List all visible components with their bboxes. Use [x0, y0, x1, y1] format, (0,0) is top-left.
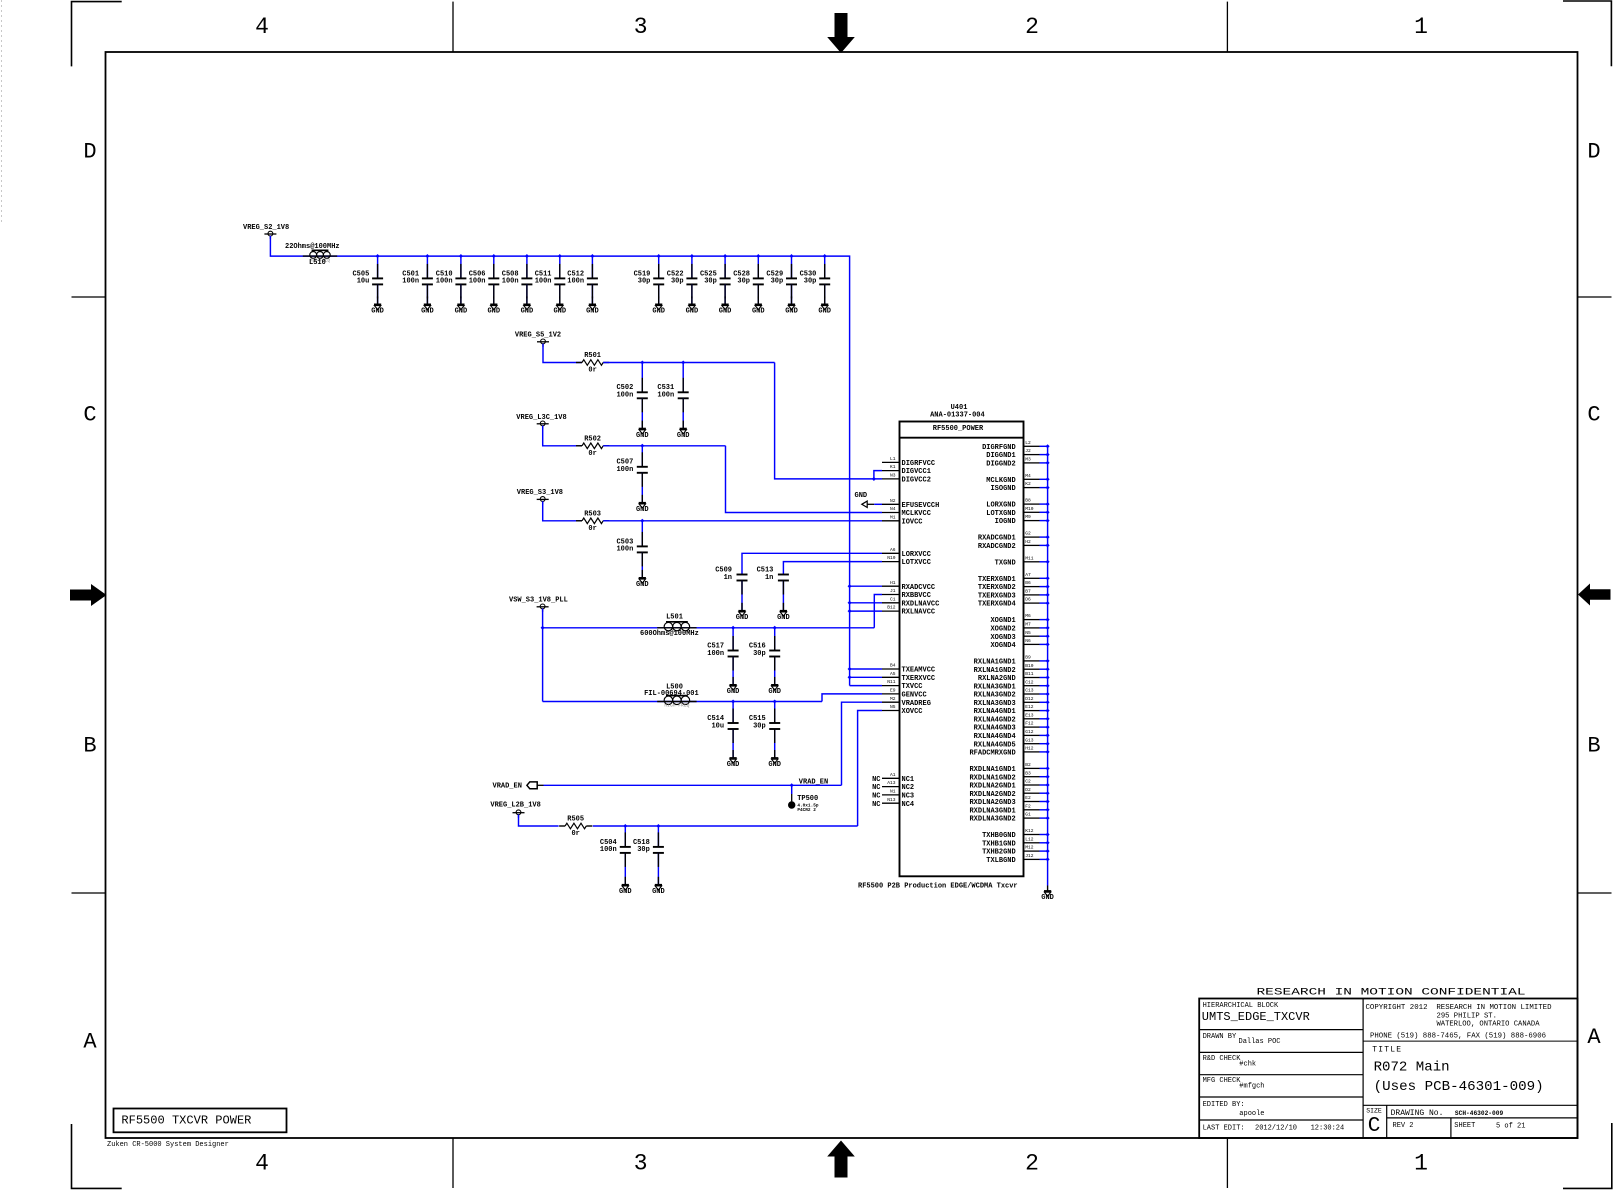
- svg-text:RXLNA1GND1: RXLNA1GND1: [974, 659, 1016, 667]
- svg-text:C1: C1: [890, 596, 896, 602]
- ground: [371, 304, 384, 315]
- svg-text:K2: K2: [1025, 481, 1031, 487]
- ground: [768, 685, 781, 696]
- svg-text:XOVCC: XOVCC: [902, 708, 923, 716]
- svg-text:D: D: [83, 140, 96, 165]
- svg-text:R&D CHECK: R&D CHECK: [1203, 1055, 1242, 1063]
- ground: [421, 304, 434, 315]
- ground: [487, 304, 500, 315]
- junction C522 tap: [690, 254, 694, 258]
- wire net RXADCVCC tap: [848, 584, 882, 588]
- svg-text:22Ohms@100MHz: 22Ohms@100MHz: [285, 243, 340, 251]
- svg-text:RXLNA1GND2: RXLNA1GND2: [974, 667, 1016, 675]
- ground: [652, 304, 665, 315]
- svg-text:R502: R502: [584, 435, 601, 443]
- wire net VRAD_EN: [544, 702, 883, 785]
- svg-text:XOGND4: XOGND4: [990, 642, 1015, 650]
- wire net XOVCC (R505 output): [593, 711, 882, 827]
- capacitor C512: [567, 256, 598, 304]
- svg-text:NC3: NC3: [902, 793, 915, 801]
- svg-text:ANA-01337-004: ANA-01337-004: [930, 412, 985, 420]
- svg-text:B6: B6: [1025, 580, 1031, 586]
- capacitor C513: [757, 566, 789, 610]
- svg-text:B: B: [1587, 734, 1600, 759]
- svg-text:A13: A13: [887, 780, 896, 786]
- pin K2 ISOGND: [990, 481, 1049, 493]
- svg-text:0r: 0r: [588, 450, 596, 458]
- svg-text:30p: 30p: [671, 278, 684, 286]
- ground: [521, 304, 534, 315]
- svg-text:D6: D6: [1025, 597, 1031, 603]
- connector VRAD_EN: [493, 782, 544, 791]
- svg-text:C12: C12: [1025, 679, 1034, 685]
- svg-text:1: 1: [1414, 14, 1428, 40]
- svg-text:RXLNA2GND: RXLNA2GND: [978, 675, 1016, 683]
- IC U401 description text: [858, 883, 1018, 891]
- svg-text:N2: N2: [890, 498, 896, 504]
- svg-text:N3: N3: [890, 473, 896, 479]
- svg-text:VSW_S3_1V8_PLL: VSW_S3_1V8_PLL: [509, 597, 568, 605]
- svg-text:PHONE (519) 888-7465, FAX (519: PHONE (519) 888-7465, FAX (519) 888-6906: [1370, 1033, 1546, 1041]
- svg-text:K1: K1: [890, 464, 896, 470]
- capacitor C515: [749, 702, 780, 759]
- svg-text:TXERXGND2: TXERXGND2: [978, 584, 1016, 592]
- svg-text:E12: E12: [1025, 704, 1034, 710]
- svg-text:XOGND3: XOGND3: [990, 634, 1015, 642]
- svg-text:L510: L510: [309, 259, 326, 267]
- junction C529 tap: [789, 254, 793, 258]
- svg-text:GENVCC: GENVCC: [902, 692, 927, 700]
- junction C511 tap: [558, 254, 562, 258]
- svg-text:SCH-46302-009: SCH-46302-009: [1455, 1110, 1504, 1117]
- capacitor C511: [535, 256, 566, 304]
- svg-text:GND: GND: [785, 308, 798, 316]
- svg-text:RFADCMRXGND: RFADCMRXGND: [969, 750, 1015, 758]
- pin N6 XOGND4: [990, 638, 1049, 650]
- pin M9 IOGND: [995, 514, 1050, 526]
- pin B2 RXDLNA1GND1: [969, 762, 1049, 774]
- ground: [677, 429, 690, 440]
- svg-text:1n: 1n: [724, 574, 732, 582]
- svg-text:LOTXVCC: LOTXVCC: [902, 559, 931, 567]
- svg-text:0r: 0r: [571, 830, 579, 838]
- svg-text:GND: GND: [855, 492, 868, 500]
- pin M7 XOGND2: [990, 622, 1049, 634]
- svg-text:TXLBGND: TXLBGND: [986, 857, 1015, 865]
- svg-text:Zuken CR-5000 System Designer: Zuken CR-5000 System Designer: [107, 1141, 229, 1149]
- svg-text:COPYRIGHT 2012 RESEARCH IN MO: COPYRIGHT 2012 RESEARCH IN MOTION LIMITE…: [1366, 1004, 1552, 1012]
- svg-text:P4CR2 2: P4CR2 2: [797, 808, 816, 813]
- pin N11 TXVCC: [882, 679, 923, 691]
- ground EFUSEVCCH: [855, 492, 883, 507]
- svg-text:30p: 30p: [638, 278, 651, 286]
- ground: [686, 304, 699, 315]
- svg-text:GND: GND: [636, 581, 649, 589]
- svg-text:RXLNA3GND2: RXLNA3GND2: [974, 692, 1016, 700]
- svg-text:D2: D2: [1025, 787, 1031, 793]
- svg-text:MCLKGND: MCLKGND: [986, 477, 1015, 485]
- junction C507 tap: [640, 444, 644, 448]
- svg-text:GND: GND: [619, 888, 632, 896]
- svg-text:RXDLNA3GND1: RXDLNA3GND1: [969, 807, 1015, 815]
- svg-text:M4: M4: [1025, 473, 1031, 479]
- svg-text:RXLNA4GND4: RXLNA4GND4: [974, 733, 1016, 741]
- pin E2 RXDLNA2GND3: [969, 795, 1049, 807]
- svg-text:WATERLOO, ONTARIO CANADA: WATERLOO, ONTARIO CANADA: [1437, 1021, 1541, 1029]
- power flag VREG_L3C_1V8: [516, 414, 566, 429]
- svg-text:100n: 100n: [567, 278, 584, 286]
- svg-text:H12: H12: [1025, 746, 1034, 752]
- svg-text:N4: N4: [890, 506, 896, 512]
- svg-text:100n: 100n: [402, 278, 419, 286]
- svg-text:C: C: [83, 403, 96, 428]
- svg-text:GND: GND: [586, 308, 599, 316]
- svg-text:B3: B3: [1025, 770, 1031, 776]
- testpoint TP500: [788, 785, 819, 813]
- ground: [636, 578, 649, 589]
- svg-text:GND: GND: [652, 308, 665, 316]
- junction DIGVCC1 branch: [872, 477, 876, 481]
- svg-text:RXLNA4GND5: RXLNA4GND5: [974, 741, 1016, 749]
- capacitor C508: [502, 256, 533, 304]
- pin C13 RXLNA3GND2: [974, 688, 1050, 700]
- svg-text:2: 2: [1025, 1150, 1039, 1176]
- title block grid: [1199, 999, 1577, 1139]
- pin N5 XOGND3: [990, 630, 1049, 642]
- pin M10 LOTXGND: [986, 506, 1049, 518]
- svg-text:RXADCGND2: RXADCGND2: [978, 543, 1016, 551]
- junction C525 tap: [723, 254, 727, 258]
- pin N13 NC4: [872, 797, 914, 809]
- svg-text:SIZE: SIZE: [1366, 1108, 1382, 1115]
- svg-text:EFUSEVCCH: EFUSEVCCH: [902, 502, 940, 510]
- pin D6 TXERXGND4: [978, 597, 1050, 609]
- svg-text:K12: K12: [1025, 828, 1034, 834]
- pin B3 RXDLNA1GND2: [969, 770, 1049, 782]
- ground: [636, 429, 649, 440]
- ground: [455, 304, 468, 315]
- junction C519 tap: [657, 254, 661, 258]
- ground: [727, 758, 740, 769]
- pin J12 TXLBGND: [986, 853, 1049, 865]
- svg-text:VRAD_EN: VRAD_EN: [493, 782, 522, 790]
- svg-text:M10: M10: [1025, 506, 1034, 512]
- svg-text:RXDLNA1GND1: RXDLNA1GND1: [969, 766, 1015, 774]
- capacitor C518: [633, 826, 664, 885]
- svg-text:#chk: #chk: [1239, 1061, 1256, 1069]
- capacitor C505: [352, 256, 383, 304]
- svg-text:B: B: [83, 734, 96, 759]
- svg-text:NC1: NC1: [902, 776, 915, 784]
- svg-text:F12: F12: [1025, 721, 1034, 727]
- pin M3 DIGGND2: [986, 457, 1049, 469]
- pin E9 GENVCC: [882, 688, 927, 700]
- svg-text:R503: R503: [584, 510, 601, 518]
- svg-text:VREG_S5_1V2: VREG_S5_1V2: [515, 332, 561, 340]
- svg-text:NC4: NC4: [902, 801, 915, 809]
- svg-text:J12: J12: [1025, 853, 1034, 859]
- svg-text:TXEAMVCC: TXEAMVCC: [902, 667, 936, 675]
- svg-text:GND: GND: [686, 308, 699, 316]
- wire net VREG_L2B_1V8: [519, 815, 559, 827]
- svg-text:100n: 100n: [535, 278, 552, 286]
- svg-text:GND: GND: [727, 688, 740, 696]
- svg-text:G12: G12: [1025, 729, 1034, 735]
- ground: [768, 758, 781, 769]
- pin N3 DIGVCC2: [882, 473, 931, 485]
- svg-text:100n: 100n: [436, 278, 453, 286]
- svg-text:0r: 0r: [588, 367, 596, 375]
- junction TP500 tap: [790, 783, 794, 787]
- svg-text:A: A: [1587, 1025, 1601, 1050]
- svg-text:B11: B11: [1025, 671, 1034, 677]
- junction C516 tap: [773, 626, 777, 630]
- svg-text:IOGND: IOGND: [995, 518, 1016, 526]
- svg-text:L501: L501: [666, 614, 683, 622]
- svg-text:#mfgch: #mfgch: [1239, 1083, 1264, 1091]
- pin L1 DIGRFVCC: [882, 456, 935, 468]
- svg-text:R072 Main: R072 Main: [1374, 1060, 1450, 1076]
- svg-text:100n: 100n: [616, 466, 633, 474]
- svg-text:RXLNA4GND3: RXLNA4GND3: [974, 725, 1016, 733]
- svg-text:30p: 30p: [771, 278, 784, 286]
- node VRAD_EN label: [799, 778, 828, 786]
- junction C504 tap: [623, 824, 627, 828]
- capacitor C525: [700, 256, 731, 304]
- wire net LORXVCC: [742, 553, 882, 574]
- svg-text:RXLNA3GND3: RXLNA3GND3: [974, 700, 1016, 708]
- junction C501 tap: [425, 254, 429, 258]
- ground: [818, 304, 831, 315]
- svg-text:C: C: [1368, 1115, 1381, 1138]
- svg-text:B9: B9: [1025, 655, 1031, 661]
- svg-text:2: 2: [1025, 14, 1039, 40]
- svg-text:RXLNA3GND1: RXLNA3GND1: [974, 683, 1016, 691]
- pin C2 RXDLNA2GND1: [969, 779, 1049, 791]
- svg-text:R501: R501: [584, 352, 601, 360]
- svg-text:NC2: NC2: [902, 784, 915, 792]
- svg-text:F2: F2: [1025, 803, 1031, 809]
- svg-text:GND: GND: [1041, 894, 1054, 902]
- pin H2 RXADCGND2: [978, 539, 1050, 551]
- capacitor C503: [616, 521, 647, 578]
- svg-text:HIERARCHICAL BLOCK: HIERARCHICAL BLOCK: [1203, 1002, 1279, 1010]
- ground: [1041, 891, 1054, 902]
- svg-text:E2: E2: [1025, 795, 1031, 801]
- svg-text:RXDLNAVCC: RXDLNAVCC: [902, 600, 940, 608]
- svg-text:FIL-00694-001: FIL-00694-001: [644, 690, 699, 698]
- pin K1 DIGVCC1: [882, 464, 931, 476]
- svg-text:VRADREG: VRADREG: [902, 700, 931, 708]
- capacitor C501: [402, 256, 433, 304]
- svg-text:100n: 100n: [600, 846, 617, 854]
- svg-text:M7: M7: [1025, 622, 1031, 628]
- pin B12 RXLNAVCC: [882, 605, 935, 617]
- svg-text:N10: N10: [887, 555, 896, 561]
- pin M6 XOGND1: [990, 613, 1049, 625]
- capacitor C528: [733, 256, 764, 304]
- inductor L500 labels: [644, 683, 699, 698]
- svg-text:J1: J1: [890, 588, 896, 594]
- svg-text:RXBBVCC: RXBBVCC: [902, 592, 931, 600]
- svg-text:GND: GND: [719, 308, 732, 316]
- ground: [619, 885, 632, 896]
- svg-text:GND: GND: [421, 308, 434, 316]
- ground: [553, 304, 566, 315]
- svg-text:100n: 100n: [616, 546, 633, 554]
- ground: [586, 304, 599, 315]
- power flag VSW_S3_1V8_PLL: [509, 597, 568, 612]
- svg-text:DIGRFVCC: DIGRFVCC: [902, 460, 936, 468]
- pin N5 XOVCC: [882, 704, 923, 716]
- svg-text:LOTXGND: LOTXGND: [986, 510, 1015, 518]
- svg-text:GND: GND: [371, 308, 384, 316]
- pin B7 TXERXGND3: [978, 589, 1050, 601]
- wire net VREG_S2_1V8 bus: [270, 236, 849, 686]
- svg-text:B4: B4: [890, 663, 896, 669]
- svg-text:EDITED BY:: EDITED BY:: [1203, 1101, 1245, 1109]
- svg-text:TXGND: TXGND: [995, 559, 1016, 567]
- inductor L501 labels: [640, 614, 699, 638]
- svg-text:DRAWN BY: DRAWN BY: [1203, 1033, 1237, 1041]
- wire GND rail tail: [1047, 886, 1049, 892]
- svg-text:30p: 30p: [804, 278, 817, 286]
- svg-text:N11: N11: [887, 679, 896, 685]
- svg-text:TXERXGND1: TXERXGND1: [978, 576, 1016, 584]
- pin F2 RXDLNA3GND1: [969, 803, 1049, 815]
- pin J1 RXBBVCC: [882, 588, 931, 600]
- junction C503 tap: [640, 519, 644, 523]
- inductor L501: [657, 622, 696, 631]
- capacitor C510: [436, 256, 467, 304]
- pin A5 TXERXVCC: [882, 671, 935, 683]
- svg-text:Dallas POC: Dallas POC: [1239, 1038, 1281, 1046]
- svg-text:VREG_S3_1V8: VREG_S3_1V8: [517, 489, 563, 497]
- junction C512 tap: [590, 254, 594, 258]
- svg-text:M9: M9: [1025, 514, 1031, 520]
- pin M12 TXHB2GND: [982, 845, 1050, 857]
- resistor R502: [576, 435, 609, 458]
- svg-text:0r: 0r: [588, 525, 596, 533]
- svg-text:TXERXGND4: TXERXGND4: [978, 601, 1016, 609]
- ground: [727, 685, 740, 696]
- svg-text:30p: 30p: [737, 278, 750, 286]
- svg-text:H2: H2: [1025, 539, 1031, 545]
- pin N10 LOTXVCC: [882, 555, 931, 567]
- title block left column text: [1202, 1002, 1344, 1133]
- junction C505 tap: [376, 254, 380, 258]
- capacitor C522: [667, 256, 698, 304]
- svg-text:VREG_L2B_1V8: VREG_L2B_1V8: [490, 802, 540, 810]
- svg-text:RXADCVCC: RXADCVCC: [902, 584, 936, 592]
- svg-text:TXHB0GND: TXHB0GND: [982, 832, 1016, 840]
- ground: [652, 885, 665, 896]
- svg-text:HIGH FREQ: HIGH FREQ: [664, 705, 690, 709]
- svg-text:N5: N5: [1025, 630, 1031, 636]
- power flag VREG_S5_1V2: [515, 332, 561, 347]
- svg-text:DIGVCC1: DIGVCC1: [902, 468, 931, 476]
- wire net GENVCC filter lower (L500): [543, 694, 882, 702]
- svg-text:RXADCGND1: RXADCGND1: [978, 535, 1016, 543]
- pin C12 RXLNA3GND1: [974, 679, 1050, 691]
- svg-text:RXLNAVCC: RXLNAVCC: [902, 609, 936, 617]
- pin M2 VRADREG: [882, 696, 931, 708]
- capacitor C529: [766, 256, 797, 304]
- svg-text:G1: G1: [1025, 812, 1031, 818]
- svg-text:3: 3: [634, 1150, 648, 1176]
- svg-text:100n: 100n: [616, 392, 633, 400]
- pin G2 RXADCGND1: [978, 531, 1050, 543]
- junction C518 tap: [656, 824, 660, 828]
- svg-text:NC: NC: [872, 784, 880, 792]
- svg-text:30p: 30p: [704, 278, 717, 286]
- ground: [736, 611, 749, 622]
- capacitor C509: [715, 566, 747, 610]
- pin E13 RXLNA4GND2: [974, 712, 1050, 724]
- wire net VREG_S5_1V2: [543, 344, 582, 363]
- svg-text:VREG_L3C_1V8: VREG_L3C_1V8: [516, 414, 566, 422]
- wire net TXVCC tap: [850, 685, 882, 687]
- pin M1 IOVCC: [882, 514, 923, 526]
- title block right column text: [1366, 1004, 1552, 1138]
- wire net VREG_L3C_1V8: [543, 426, 582, 446]
- svg-text:GND: GND: [636, 432, 649, 440]
- svg-text:R505: R505: [567, 816, 584, 824]
- capacitor C531: [657, 363, 688, 429]
- svg-text:G13: G13: [1025, 737, 1034, 743]
- pin G12 RXLNA4GND4: [974, 729, 1050, 741]
- ground: [777, 611, 790, 622]
- capacitor C516: [749, 628, 780, 685]
- junction C510 tap: [459, 254, 463, 258]
- svg-text:DIGRFGND: DIGRFGND: [982, 444, 1016, 452]
- junction C506 tap: [492, 254, 496, 258]
- resistor R503: [576, 510, 609, 533]
- junction VSW split: [541, 626, 545, 630]
- svg-text:VREG_S2_1V8: VREG_S2_1V8: [243, 224, 289, 232]
- wire net DIGVCC (R501 output): [603, 363, 882, 479]
- svg-text:GND: GND: [455, 308, 468, 316]
- svg-text:DIGVCC2: DIGVCC2: [902, 477, 931, 485]
- capacitor C507: [616, 446, 647, 503]
- junction C508 tap: [525, 254, 529, 258]
- svg-text:B8: B8: [1025, 498, 1031, 504]
- svg-text:RF5500_POWER: RF5500_POWER: [933, 425, 984, 433]
- svg-text:TXHB1GND: TXHB1GND: [982, 840, 1016, 848]
- svg-text:M12: M12: [1025, 845, 1034, 851]
- svg-text:M3: M3: [1025, 457, 1031, 463]
- junction C515 tap: [773, 699, 777, 703]
- svg-text:GND: GND: [677, 432, 690, 440]
- ground: [719, 304, 732, 315]
- wire net RXLNAVCC tap: [848, 609, 882, 613]
- svg-text:RXDLNA3GND2: RXDLNA3GND2: [969, 816, 1015, 824]
- wire net RXDLNAVCC tap: [848, 601, 882, 605]
- power flag VREG_S3_1V8: [517, 489, 563, 504]
- pin N2 EFUSEVCCH: [882, 498, 939, 510]
- svg-text:100n: 100n: [469, 278, 486, 286]
- svg-text:C: C: [1587, 403, 1600, 428]
- svg-text:TXERXVCC: TXERXVCC: [902, 675, 936, 683]
- svg-text:N1: N1: [890, 789, 896, 795]
- svg-text:D12: D12: [1025, 696, 1034, 702]
- svg-text:100n: 100n: [502, 278, 519, 286]
- pin K12 TXHB0GND: [982, 828, 1050, 840]
- svg-text:B7: B7: [1025, 589, 1031, 595]
- svg-text:100n: 100n: [657, 392, 674, 400]
- junction C528 tap: [756, 254, 760, 258]
- pin M11 TXGND: [995, 555, 1050, 567]
